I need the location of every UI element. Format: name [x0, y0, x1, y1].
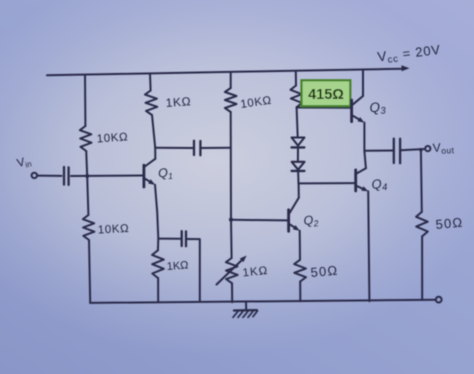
wire cap C3 to bottom	[187, 239, 200, 301]
svg-text:10KΩ: 10KΩ	[98, 223, 130, 237]
wire	[87, 176, 88, 215]
wire R7 node down to diodes	[297, 108, 298, 138]
transistor Q1	[144, 148, 155, 187]
svg-text:10KΩ: 10KΩ	[240, 95, 273, 111]
svg-text:1KΩ: 1KΩ	[242, 265, 269, 280]
resistor R5 10K mid	[225, 88, 237, 112]
wire	[231, 283, 233, 302]
svg-text:Vin: Vin	[16, 155, 33, 171]
wire Q3 collector branch from rail	[362, 69, 364, 96]
resistor R7 415 ohm	[291, 86, 303, 108]
wire 1K branch from rail	[149, 74, 152, 91]
wire D1 to D2	[297, 148, 299, 162]
output rail terminal circle	[436, 297, 442, 303]
svg-text:Q3: Q3	[369, 99, 387, 118]
svg-text:415Ω: 415Ω	[308, 87, 344, 103]
wire cap C2 to mid branch	[201, 147, 231, 149]
resistor R8 50 ohm load	[416, 212, 428, 237]
wire	[152, 115, 155, 148]
svg-text:1KΩ: 1KΩ	[165, 94, 191, 110]
capacitor C4 output	[394, 139, 400, 164]
diode D2	[292, 162, 305, 171]
bottom ground rail wire	[90, 300, 436, 303]
wire output node to cap C4	[364, 150, 393, 152]
transistor Q4	[356, 168, 369, 191]
wire	[299, 282, 301, 302]
svg-text:50Ω: 50Ω	[435, 215, 464, 232]
svg-text:1KΩ: 1KΩ	[166, 260, 188, 273]
resistor R2 10K lower-left	[83, 215, 95, 240]
diode D1	[292, 138, 305, 148]
capacitor C3 emitter bypass	[182, 231, 186, 246]
Vin terminal circle	[32, 173, 37, 178]
transistor Q2	[289, 198, 300, 232]
capacitor C2 interstage	[194, 141, 200, 155]
wire R7 to Q3 base	[297, 107, 351, 109]
svg-text:Vcc = 20V: Vcc = 20V	[377, 42, 442, 67]
resistor R4 1K emitter Q1	[157, 239, 159, 251]
wire	[421, 236, 423, 300]
Vcc rail arrowhead	[401, 65, 409, 71]
wire	[86, 151, 87, 176]
capacitor C1 input	[64, 167, 69, 185]
wire Q1 emitter down	[155, 185, 158, 239]
wire node to Q4 base	[299, 182, 355, 184]
node junction Vin/bias	[85, 174, 89, 178]
wire 415 branch from rail	[295, 71, 297, 85]
wire collector node to coupling cap	[155, 147, 193, 149]
node junction Q2 base	[229, 218, 233, 222]
wire mid node to Q2 base	[231, 219, 288, 222]
wire cap to Q1 base	[71, 175, 143, 178]
resistor R6 50 ohm Q2 emitter	[294, 260, 306, 282]
ground	[233, 302, 258, 318]
wire Vout node down to load	[420, 150, 423, 212]
wire	[230, 220, 233, 258]
svg-text:Q4: Q4	[371, 175, 388, 194]
wire	[230, 112, 232, 220]
svg-text:50Ω: 50Ω	[310, 263, 339, 280]
wire C4 to Vout	[401, 149, 425, 150]
resistor R1 10K upper-left	[80, 126, 92, 151]
wire Q4 emitter down to bottom rail	[368, 191, 369, 301]
wire mid branch from rail	[230, 72, 232, 88]
wire emitter node to bypass cap	[158, 238, 181, 240]
wire Vin to cap	[37, 175, 62, 177]
wire	[157, 278, 159, 302]
top power rail wire	[47, 69, 405, 76]
transistor Q3	[352, 96, 365, 123]
wire output node down to Q4 collector	[364, 151, 366, 169]
svg-text:10KΩ: 10KΩ	[96, 131, 128, 145]
highlighted value box 415 ohm	[302, 80, 351, 106]
wire left branch from rail	[84, 75, 86, 126]
wire Q2 collector up	[298, 183, 300, 197]
variable resistor RV1 1K	[217, 256, 247, 285]
Vout terminal circle	[425, 146, 430, 151]
svg-text:Q2: Q2	[303, 213, 319, 230]
wire	[89, 240, 90, 303]
wire Q2 emitter down	[299, 231, 301, 260]
wire Q3 emitter to output node	[363, 123, 365, 151]
svg-text:Q1: Q1	[158, 165, 174, 182]
node junction Vout/load	[419, 148, 423, 152]
wire D2 to node	[297, 171, 299, 183]
svg-text:Vout: Vout	[432, 140, 455, 157]
resistor R3 1K collector Q1	[145, 91, 157, 116]
